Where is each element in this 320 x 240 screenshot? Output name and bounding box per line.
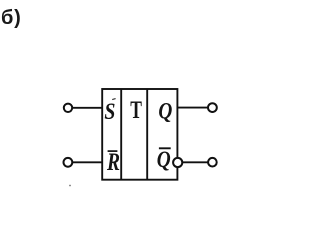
svg-text:б): б) — [1, 7, 22, 29]
svg-text:S: S — [104, 99, 115, 125]
svg-text:T: T — [130, 96, 142, 124]
svg-text:Q: Q — [157, 146, 171, 172]
svg-text:Q: Q — [158, 98, 172, 124]
